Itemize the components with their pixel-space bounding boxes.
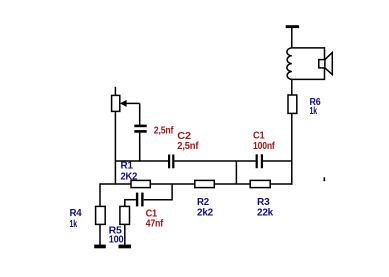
svg-text:2,5nf: 2,5nf [154,125,174,136]
resistor R4 [96,206,106,224]
wire R6 to node B right [291,113,293,184]
ground under R4 [94,245,106,249]
wire node A segment 2 [174,160,255,162]
speaker LS1 cone [325,53,332,75]
resistor R2 [195,180,215,187]
svg-text:2,5nf: 2,5nf [177,141,199,152]
potentiometer P1 wiper arrowhead [120,100,127,107]
wire R4 to ground [99,224,101,245]
wire speaker to R6 [291,79,293,95]
svg-text:1k: 1k [70,219,78,230]
power rail bar [286,25,299,28]
svg-text:100: 100 [109,235,124,246]
wire node B segment 3 [214,183,250,185]
wire C3 to node A [139,133,141,162]
wire node A segment 3 [263,160,293,162]
wire node A segment 1 [115,160,168,162]
wire C1 branch left [125,199,136,201]
wire rail to speaker [291,28,293,48]
capacitor C2 plates [168,155,170,169]
speaker LS1 coil [287,48,292,80]
resistor R5 [120,206,130,224]
capacitor C1 100nf plates [256,154,258,168]
resistor R1 [131,180,150,187]
wire junction node A to node B [235,161,237,184]
wire pot left lead down [114,111,116,184]
svg-text:22k: 22k [257,207,274,218]
svg-text:1k: 1k [310,106,318,117]
svg-text:R2: R2 [197,197,210,208]
potentiometer P1 stub [114,87,116,96]
potentiometer P1 wiper wire [126,102,140,104]
svg-text:47nf: 47nf [146,219,164,230]
svg-text:R4: R4 [70,208,83,219]
wire node B down to R4 [99,183,101,206]
potentiometer P1 body [112,95,120,111]
svg-text:2k2: 2k2 [197,207,214,218]
wire C1 branch right [144,199,173,201]
wire down to R5 [124,199,126,206]
capacitor C1 47nf plates [136,193,138,207]
capacitor C3 2,5nf plates [134,125,146,128]
speaker LS1 driver [319,60,325,68]
ground under R5 [119,245,132,249]
svg-text:2K2: 2K2 [121,171,138,182]
wire node B segment 2 [150,183,195,185]
resistor R6 [288,95,297,113]
wire node B segment 1 [100,183,131,185]
stray tick mark [324,177,326,181]
speaker LS1 body [292,48,325,80]
wire wiper to C3 [139,103,141,124]
resistor R3 [250,180,270,187]
svg-text:R1: R1 [121,160,134,171]
wire R5 to ground [124,224,126,245]
svg-text:R3: R3 [257,197,270,208]
svg-text:100nf: 100nf [253,141,275,152]
svg-text:C1: C1 [253,131,265,142]
wire node B down to C1 branch [171,184,173,200]
wire node B segment 4 [270,183,292,185]
